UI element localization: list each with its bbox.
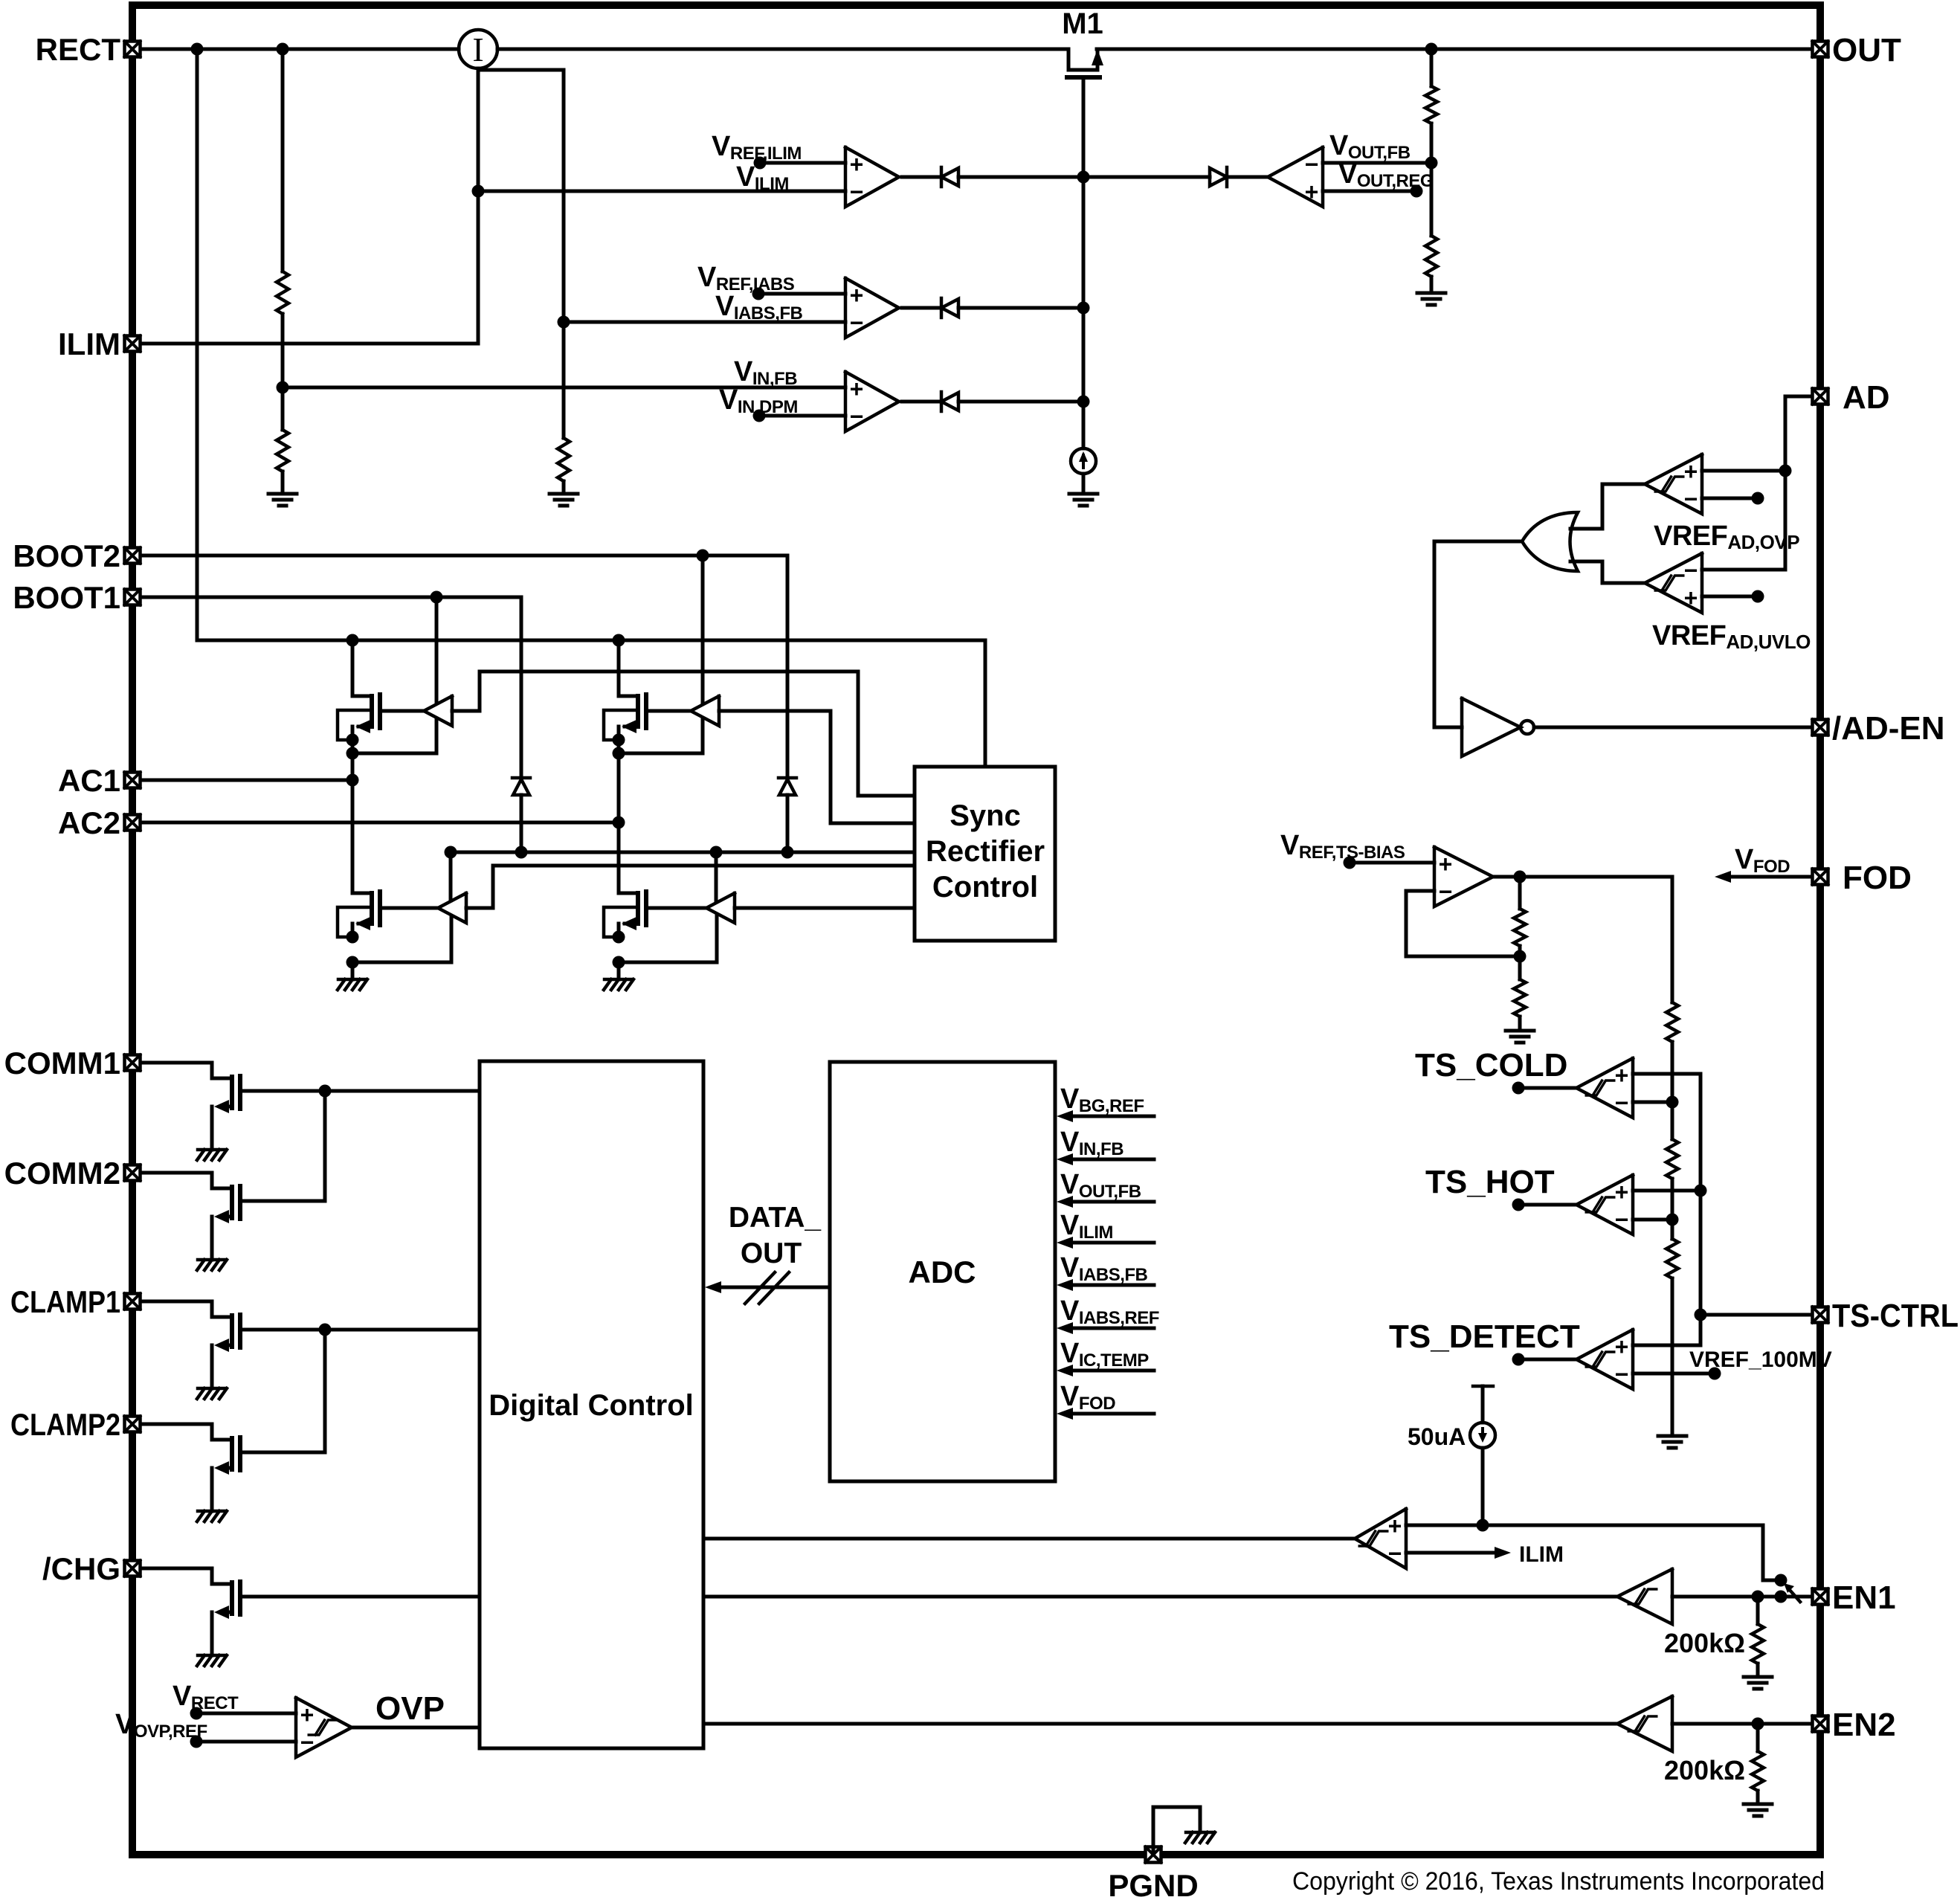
- wire TS_DETECT - input VREF_100MV: [1633, 1372, 1715, 1376]
- wire TS_COLD output: [1518, 1086, 1576, 1090]
- wire ADC input VOUT,FB: [1069, 1200, 1154, 1204]
- transistor Q9 /CHG: [141, 1568, 232, 1584]
- wire VIN,DPM stub: [759, 414, 845, 418]
- wire driver4 return tie: [619, 915, 717, 962]
- op-amp U1 ILIM error comparator: [845, 147, 899, 207]
- wire TS resistor chain: [1671, 877, 1674, 1002]
- svg-text:−: −: [1684, 557, 1698, 584]
- ground Q4: [605, 978, 633, 982]
- svg-text:−: −: [1305, 151, 1319, 178]
- wire TS bias feedback: [1518, 877, 1522, 909]
- svg-text:−: −: [850, 403, 864, 430]
- op-amp U6 AD UVLO comparator: [1645, 553, 1702, 613]
- wire IABS chain: [478, 70, 564, 438]
- svg-text:AC1: AC1: [58, 763, 120, 798]
- wire M1 to OUT: [1097, 48, 1812, 51]
- wire EN1 pin line: [1672, 1595, 1811, 1599]
- ground below current source: [1069, 492, 1097, 496]
- svg-text:OVP: OVP: [375, 1690, 445, 1727]
- wire Q3 source to ground: [351, 962, 355, 979]
- wire VREF,ILIM stub: [760, 161, 845, 165]
- wire BOOT2 line: [142, 555, 787, 778]
- wire TS_DETECT + input: [1633, 1344, 1701, 1347]
- ground TS chain: [1658, 1434, 1686, 1438]
- node COMM gate tie: [319, 1085, 332, 1098]
- wire CLAMP1 gate line: [240, 1328, 480, 1332]
- wire AD OVP + input: [1702, 469, 1785, 473]
- wire TS_HOT - input: [1633, 1218, 1672, 1222]
- wire RECT rail to current sensor: [142, 48, 459, 51]
- wire ILIM pin line: [142, 342, 478, 346]
- node RECT rail junction B: [277, 43, 289, 56]
- node TS_COLD ref tap: [1666, 1096, 1679, 1109]
- wire CLAMP gate tie vertical: [323, 1330, 327, 1452]
- svg-text:50uA: 50uA: [1408, 1423, 1466, 1450]
- node EN2 pulldown tap: [1752, 1718, 1764, 1730]
- wire EN2 pin line: [1672, 1722, 1811, 1726]
- wire FOD arrow: [1729, 875, 1811, 879]
- ground VIN divider: [268, 492, 297, 496]
- wire sensor to M1: [497, 48, 1068, 51]
- pin CLAMP1: [125, 1294, 141, 1310]
- svg-text:+: +: [1439, 851, 1453, 877]
- svg-text:−: −: [1439, 878, 1453, 905]
- node driver4 return: [613, 956, 625, 969]
- svg-text:+: +: [300, 1701, 315, 1728]
- svg-text:AD: AD: [1843, 379, 1890, 416]
- node TS feedback tap: [1514, 950, 1527, 963]
- wire DATA_OUT bus: [718, 1286, 830, 1289]
- resistor R_TS2: [1514, 979, 1526, 1017]
- current sensor I1: [459, 30, 497, 68]
- block Sync Rectifier Control: [915, 767, 1055, 941]
- resistor R_TS4: [1666, 1139, 1678, 1179]
- wire VIABS,FB line: [564, 321, 845, 324]
- node Q2 source: [613, 734, 625, 747]
- pin BOOT2: [125, 548, 141, 564]
- svg-text:TS-CTRL: TS-CTRL: [1832, 1298, 1959, 1334]
- op-amp U10 TS_DETECT comparator: [1576, 1330, 1633, 1389]
- diode D2: [902, 306, 941, 310]
- resistor R_TS1: [1514, 909, 1526, 946]
- node EN1 pulldown tap: [1752, 1591, 1764, 1603]
- svg-text:Rectifier: Rectifier: [926, 835, 1045, 868]
- svg-text:TS_DETECT: TS_DETECT: [1389, 1318, 1580, 1355]
- svg-text:−: −: [1615, 1089, 1629, 1116]
- wire COMM gate tie vertical: [323, 1091, 327, 1201]
- node TS bias output: [1514, 871, 1527, 883]
- svg-text:PGND: PGND: [1108, 1868, 1198, 1900]
- node Q4 source: [613, 931, 625, 944]
- svg-text:200kΩ: 200kΩ: [1664, 1755, 1745, 1785]
- op-amp U9 TS_HOT comparator: [1576, 1175, 1633, 1234]
- wire driver1 return tie: [352, 719, 436, 753]
- node VOUT,FB tap: [1425, 157, 1438, 170]
- resistor R_IN1: [277, 271, 288, 314]
- ground TS bias divider: [1506, 1029, 1534, 1033]
- svg-text:Sync: Sync: [950, 799, 1021, 832]
- pin CLAMP2: [125, 1417, 141, 1432]
- resistor R_OUT1: [1425, 86, 1437, 123]
- svg-text:OUT: OUT: [1832, 32, 1901, 68]
- node OUT divider junction: [1425, 43, 1438, 56]
- ground PGND: [1186, 1831, 1214, 1835]
- wire BOOT2 to driver2 supply: [701, 555, 705, 703]
- node gate trunk junction 2: [1077, 302, 1090, 315]
- svg-text:+: +: [1388, 1513, 1402, 1539]
- transistor Q1 sync high-side 1: [351, 640, 355, 696]
- wire BOOT1 line: [142, 597, 521, 778]
- ground Q3: [338, 978, 367, 982]
- wire BOOT1 to driver1 supply: [435, 597, 439, 703]
- transistor Q2 sync high-side 2: [617, 640, 621, 696]
- diode D1: [902, 175, 941, 179]
- svg-text:BOOT1: BOOT1: [13, 580, 120, 615]
- pin OUT: [1813, 42, 1828, 57]
- op-amp U3 VIN DPM comparator: [845, 372, 899, 431]
- inverter G2: [1462, 698, 1521, 756]
- wire OVP comp output to OR: [1570, 484, 1645, 529]
- wire driver2 return tie: [619, 719, 703, 753]
- pin EN2: [1813, 1716, 1828, 1732]
- svg-text:+: +: [1615, 1333, 1629, 1360]
- resistor R_TS3: [1666, 1002, 1678, 1042]
- svg-text:Copyright © 2016, Texas Instru: Copyright © 2016, Texas Instruments Inco…: [1292, 1867, 1825, 1896]
- svg-text:−: −: [1388, 1540, 1402, 1567]
- node CLAMP gate tie: [319, 1324, 332, 1336]
- svg-text:TS_COLD: TS_COLD: [1415, 1047, 1567, 1083]
- svg-text:EN2: EN2: [1832, 1707, 1896, 1743]
- OR gate G1 (mirrored): [1522, 512, 1578, 571]
- svg-text:+: +: [1684, 458, 1698, 485]
- node Q3 source: [346, 931, 359, 944]
- wire driver1 input: [452, 672, 915, 796]
- wire AC1 pin line: [142, 779, 352, 782]
- wire driver4 input: [735, 906, 915, 910]
- resistor R_EN2 200k: [1756, 1724, 1760, 1751]
- svg-text:200kΩ: 200kΩ: [1664, 1628, 1745, 1658]
- resistor R_IABS: [558, 438, 570, 481]
- wire TS bias output: [1493, 875, 1672, 879]
- pin /AD-EN: [1813, 720, 1828, 735]
- ground IABS chain: [549, 492, 578, 496]
- wire ADC input VIC,TEMP: [1069, 1369, 1154, 1373]
- node bridge rail left: [346, 634, 359, 647]
- svg-text:+: +: [1684, 585, 1698, 611]
- op-amp U8 TS_COLD comparator: [1576, 1058, 1633, 1118]
- op-amp U4 VOUT regulation (left-pointing): [1268, 147, 1323, 207]
- current source I3 50uA: [1473, 1385, 1493, 1388]
- node VIABS,FB tap: [558, 316, 570, 329]
- node driver1 return: [346, 747, 359, 760]
- node TS_HOT ref tap: [1666, 1214, 1679, 1226]
- wire EN2 buffer output: [703, 1722, 1617, 1726]
- wire OVP output: [352, 1726, 480, 1730]
- wire ILIM signal arrow: [1406, 1551, 1495, 1555]
- wire ADC input VIABS,REF: [1069, 1327, 1154, 1330]
- wire sensor output tap: [477, 68, 480, 344]
- node VILIM tap: [472, 185, 485, 198]
- op-amp U12 OVP comparator: [296, 1698, 352, 1757]
- svg-text:+: +: [1305, 178, 1319, 205]
- wire driver2 input: [719, 711, 915, 823]
- op-amp U5 AD OVP comparator: [1645, 454, 1702, 514]
- node AC1: [346, 774, 359, 787]
- wire TS_COLD + input: [1633, 1072, 1701, 1076]
- wire TS_DETECT output: [1518, 1358, 1576, 1362]
- wire VREF,IABS stub: [758, 292, 845, 296]
- node AC2: [613, 817, 625, 829]
- svg-text:+: +: [850, 376, 864, 402]
- svg-text:I: I: [472, 30, 483, 68]
- wire inverter to /AD-EN: [1534, 726, 1811, 730]
- wire TS_HOT + input: [1633, 1189, 1701, 1193]
- svg-text:/AD-EN: /AD-EN: [1832, 710, 1945, 747]
- pin EN1: [1813, 1589, 1828, 1605]
- svg-text:CLAMP2: CLAMP2: [10, 1407, 120, 1442]
- wire AC2 pin line: [142, 821, 619, 825]
- resistor R_IN2: [277, 430, 288, 471]
- pin AC2: [125, 815, 141, 831]
- svg-text:CLAMP1: CLAMP1: [10, 1284, 120, 1319]
- wire VREF AD,OVP stub: [1702, 497, 1758, 500]
- svg-text:−: −: [850, 309, 864, 336]
- ground EN2: [1744, 1803, 1772, 1806]
- svg-text:/CHG: /CHG: [42, 1551, 120, 1586]
- wire VOVP,REF stub: [196, 1740, 296, 1744]
- transistor Q4 sync low-side 2: [619, 892, 638, 895]
- pin AD: [1813, 389, 1828, 405]
- node BOOT2 branch: [697, 550, 709, 562]
- wire VILIM line: [478, 190, 845, 193]
- wire VREF AD,UVLO stub: [1702, 595, 1758, 599]
- pin /CHG: [125, 1561, 141, 1577]
- op-amp U7 TS bias: [1434, 847, 1493, 906]
- svg-text:−: −: [1615, 1361, 1629, 1388]
- pin AC1: [125, 773, 141, 788]
- diode D3: [902, 400, 941, 404]
- node bridge rail right: [613, 634, 625, 647]
- ground OUT divider: [1417, 292, 1445, 295]
- wire supply to driver4: [715, 852, 718, 901]
- buffer EN2 schmitt: [1617, 1696, 1672, 1751]
- wire CLAMP2 gate line: [240, 1451, 325, 1455]
- buffer EN1 schmitt: [1617, 1569, 1672, 1624]
- pin BOOT1: [125, 590, 141, 605]
- node Q1 source: [346, 734, 359, 747]
- switch S1: [1775, 1574, 1787, 1587]
- svg-text:ADC: ADC: [909, 1255, 976, 1289]
- svg-text:+: +: [1615, 1062, 1629, 1089]
- node VIN,FB tap: [277, 381, 289, 394]
- node gate trunk junction 1: [1077, 171, 1090, 184]
- node gate trunk junction 3: [1077, 396, 1090, 408]
- buffer driver 4: [706, 893, 735, 923]
- wire TS_HOT output: [1518, 1203, 1576, 1207]
- node RECT rail junction A: [191, 43, 204, 56]
- wire ILIM comp + input: [1406, 1525, 1781, 1580]
- svg-text:ILIM: ILIM: [1519, 1542, 1564, 1567]
- svg-text:EN1: EN1: [1832, 1579, 1896, 1616]
- svg-text:DATA_: DATA_: [729, 1202, 822, 1234]
- diode D4: [1083, 175, 1210, 179]
- svg-text:+: +: [850, 282, 864, 309]
- wire driver3 input: [466, 866, 915, 908]
- svg-text:+: +: [850, 151, 864, 178]
- node AD comparator tap: [1779, 465, 1792, 477]
- svg-text:VREF_100MV: VREF_100MV: [1689, 1347, 1832, 1372]
- wire TS_COLD - input: [1633, 1101, 1672, 1104]
- svg-text:−: −: [1615, 1206, 1629, 1233]
- wire VOUT,REG stub: [1323, 190, 1416, 193]
- op-amp U11 ILIM select comparator: [1355, 1509, 1406, 1568]
- wire TS-CTRL bus: [1699, 1074, 1703, 1345]
- buffer driver 1: [424, 696, 452, 726]
- wire UVLO comp output to OR: [1570, 561, 1645, 583]
- wire M1 gate trunk: [1082, 80, 1086, 448]
- transistor Q7 CLAMP1: [141, 1301, 232, 1317]
- wire AC2 trunk: [617, 740, 621, 893]
- pin PGND: [1146, 1847, 1161, 1863]
- svg-text:M1: M1: [1062, 7, 1103, 40]
- wire OR output to inverter: [1434, 541, 1521, 727]
- wire Q4 source to ground: [617, 962, 621, 979]
- wire AD pin line: [1702, 396, 1811, 570]
- node BOOT1 branch: [431, 591, 443, 604]
- buffer driver 3: [438, 893, 466, 923]
- svg-text:−: −: [1684, 486, 1698, 512]
- svg-text:BOOT2: BOOT2: [13, 538, 120, 573]
- svg-text:Digital Control: Digital Control: [489, 1389, 694, 1422]
- node driver2 return: [613, 747, 625, 760]
- svg-text:−: −: [300, 1729, 315, 1756]
- resistor R_OUT2: [1425, 236, 1437, 277]
- pin RECT: [125, 42, 141, 57]
- wire /CHG gate line: [240, 1595, 480, 1599]
- transistor Q3 sync low-side 1: [352, 892, 372, 895]
- wire ADC input VIN,FB: [1069, 1158, 1154, 1162]
- wire VRECT stub: [196, 1712, 296, 1716]
- wire AC1 trunk: [351, 740, 355, 893]
- svg-text:COMM1: COMM1: [4, 1046, 120, 1081]
- svg-text:Control: Control: [932, 871, 1038, 904]
- wire ADC input VILIM: [1069, 1241, 1154, 1245]
- block Digital Control: [480, 1061, 703, 1748]
- pin FOD: [1813, 869, 1828, 885]
- resistor R_EN1 200k: [1756, 1597, 1760, 1624]
- wire RECT rail to bridge: [197, 640, 985, 767]
- wire ADC input VFOD: [1069, 1412, 1154, 1416]
- resistor R_TS5: [1666, 1239, 1678, 1278]
- wire supply to driver3: [449, 852, 453, 901]
- wire TS-CTRL pin line: [1701, 1313, 1811, 1317]
- wire VIN divider chain: [281, 49, 285, 271]
- transistor Q8 CLAMP2: [141, 1424, 232, 1440]
- wire driver3 return tie: [352, 916, 451, 962]
- op-amp U2 IABS comparator: [845, 278, 899, 338]
- transistor Q5 COMM1: [141, 1063, 232, 1078]
- node driver3 return: [346, 956, 359, 969]
- diode D6 bootstrap 2: [778, 776, 796, 780]
- wire COMM1 gate line: [240, 1089, 480, 1093]
- wire VIN,FB line: [283, 386, 845, 390]
- wire PGND: [1153, 1807, 1200, 1851]
- ground EN1: [1744, 1675, 1772, 1679]
- pin TS-CTRL: [1813, 1307, 1828, 1323]
- svg-text:AC2: AC2: [58, 805, 120, 840]
- wire EN1 buffer output: [703, 1595, 1617, 1599]
- svg-text:TS_HOT: TS_HOT: [1425, 1164, 1555, 1200]
- wire ILIM comp output: [703, 1537, 1355, 1541]
- transistor Q6 COMM2: [141, 1173, 232, 1188]
- wire OUT divider chain: [1430, 49, 1434, 86]
- wire COMM2 gate line: [240, 1199, 325, 1203]
- wire ADC input VBG,REF: [1069, 1115, 1154, 1118]
- svg-text:ILIM: ILIM: [58, 326, 120, 361]
- diode D5 bootstrap 1: [512, 776, 530, 780]
- pin ILIM: [125, 336, 141, 352]
- node 50uA junction: [1477, 1519, 1489, 1532]
- svg-text:COMM2: COMM2: [4, 1156, 120, 1191]
- svg-text:FOD: FOD: [1843, 860, 1912, 896]
- pin COMM2: [125, 1165, 141, 1181]
- node supply rail taps: [445, 846, 457, 859]
- current source I2 pull-down: [1071, 448, 1096, 474]
- svg-text:+: +: [1615, 1179, 1629, 1205]
- block ADC: [830, 1062, 1055, 1481]
- wire VREF,TS-BIAS stub: [1350, 861, 1434, 865]
- wire ADC input VIABS,FB: [1069, 1284, 1154, 1287]
- svg-text:OUT: OUT: [741, 1237, 802, 1269]
- wire VOUT,FB line: [1323, 161, 1431, 165]
- pin COMM1: [125, 1055, 141, 1071]
- wire RECT trunk down-left: [196, 49, 199, 640]
- wire low-side driver supply rail: [451, 851, 915, 854]
- buffer driver 2: [691, 696, 719, 726]
- svg-text:RECT: RECT: [36, 32, 121, 67]
- svg-text:−: −: [850, 178, 864, 205]
